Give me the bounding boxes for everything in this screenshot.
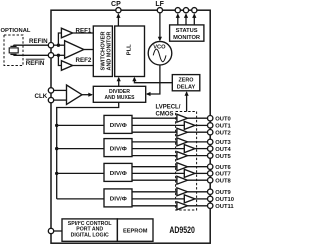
driver OUT8 — [177, 176, 188, 184]
buffer REFIN differential — [65, 41, 84, 59]
pin OUT0 — [208, 116, 231, 123]
svg-text:DIGITAL LOGIC: DIGITAL LOGIC — [71, 232, 109, 238]
output drivers dashed box — [176, 112, 197, 211]
svg-text:DIV/Φ: DIV/Φ — [110, 197, 127, 203]
wire DIV to driver 8 — [132, 179, 177, 181]
svg-text:OUT6: OUT6 — [215, 165, 231, 171]
svg-text:REFIN: REFIN — [26, 60, 45, 67]
wire DIV to driver 5 — [132, 155, 177, 157]
block PLL — [115, 26, 145, 77]
driver OUT0 — [177, 114, 188, 122]
wire VCO to divider — [147, 65, 160, 94]
wire driver to OUT4 — [195, 148, 208, 150]
pin STATUS1 — [183, 8, 188, 13]
wire DIV to driver 11 — [132, 205, 177, 207]
wire driver to OUT1 — [195, 124, 208, 126]
wire driver to OUT3 — [188, 141, 208, 143]
wire crystal to REFIN — [14, 44, 49, 46]
wire CLK buffer to divider — [82, 94, 92, 96]
pin OUT10 — [208, 196, 234, 203]
svg-text:ZERO: ZERO — [179, 78, 195, 84]
svg-text:STATUS: STATUS — [176, 28, 198, 34]
svg-text:CLK: CLK — [35, 93, 48, 100]
svg-text:REF2: REF2 — [76, 57, 92, 64]
pin STATUS0 — [175, 8, 180, 13]
pin OUT7 — [208, 171, 231, 178]
wire DIV to driver 9 — [132, 191, 177, 193]
wire DIV to driver 6 — [132, 166, 177, 168]
label LVPECL/CMOS — [156, 105, 181, 118]
svg-text:DIVIDER: DIVIDER — [109, 89, 130, 95]
svg-text:CMOS: CMOS — [156, 111, 174, 117]
svg-text:MONITOR: MONITOR — [173, 35, 200, 41]
buffer REF2 — [61, 57, 91, 70]
wire CLKB to buffer — [54, 99, 67, 101]
wire REFIN branch to REF1 — [58, 33, 61, 45]
buffer REF1 — [61, 28, 91, 38]
svg-text:CP: CP — [111, 1, 121, 8]
block EEPROM — [117, 219, 153, 241]
wire driver to OUT11 — [188, 205, 208, 207]
svg-text:OUT11: OUT11 — [215, 204, 234, 210]
wire divider bus to channel dividers — [57, 102, 119, 199]
divider DIV/PHASE 3 — [104, 163, 132, 181]
pin LF — [155, 1, 164, 13]
wire DIV to driver 2 — [132, 131, 177, 133]
wire diff buffer to switchover — [84, 49, 94, 51]
wire outputs to zero delay — [186, 92, 188, 111]
svg-text:AND MONITOR: AND MONITOR — [106, 31, 112, 70]
pin REFIN — [29, 38, 54, 48]
svg-text:REFIN: REFIN — [29, 38, 48, 45]
pin STATUS2 — [192, 8, 197, 13]
wire CLK to buffer — [54, 89, 67, 91]
divider DIV/PHASE 1 — [104, 115, 132, 133]
svg-text:OUT5: OUT5 — [215, 154, 231, 160]
pin SPI/I2C — [48, 228, 53, 233]
svg-text:OUT10: OUT10 — [215, 197, 234, 203]
pin OUT9 — [208, 189, 232, 196]
svg-text:LVPECL/: LVPECL/ — [156, 105, 181, 111]
node bus tap group 1 — [55, 124, 58, 127]
wire driver to OUT9 — [188, 191, 208, 193]
driver OUT7 — [184, 169, 195, 177]
wire REFINB branch to REF2 — [58, 55, 61, 65]
driver OUT6 — [177, 163, 188, 171]
pin REFINB (REFIN-bar) — [26, 53, 54, 68]
node REFIN branch — [57, 44, 60, 47]
wire SPI pin to control port — [54, 230, 62, 232]
svg-text:OUT9: OUT9 — [215, 190, 231, 196]
chip outline AD9520 — [51, 10, 210, 243]
block SWITCHOVER AND MONITOR — [93, 26, 112, 77]
svg-text:OUT0: OUT0 — [215, 116, 230, 122]
pin OUT1 — [208, 123, 232, 130]
svg-text:AND MUXES: AND MUXES — [105, 95, 135, 101]
svg-text:DELAY: DELAY — [177, 84, 196, 90]
svg-text:OUT2: OUT2 — [215, 130, 230, 136]
wire status monitor to pin — [193, 15, 195, 25]
pin CLKB — [48, 97, 53, 102]
wire REF1 to switchover — [73, 32, 94, 34]
svg-text:PLL: PLL — [126, 44, 132, 55]
pin OUT6 — [208, 164, 232, 171]
wire DIV to driver 4 — [132, 148, 184, 150]
wire bus to DIV3 — [57, 172, 104, 174]
wire divider to PLL feedback — [118, 78, 120, 86]
wire DIV to driver 7 — [132, 172, 184, 174]
driver OUT3 — [177, 138, 188, 146]
wire LF to VCO — [159, 13, 161, 40]
wire driver to OUT7 — [195, 172, 208, 174]
driver OUT1 — [184, 121, 195, 129]
svg-text:EEPROM: EEPROM — [123, 228, 148, 234]
svg-text:DIV/Φ: DIV/Φ — [110, 146, 127, 152]
pin OUT5 — [208, 153, 232, 160]
wire crystal to REFINB — [14, 54, 49, 56]
driver OUT9 — [177, 188, 188, 196]
wire PLL to CP — [117, 15, 119, 27]
wire zero delay to PLL — [134, 78, 172, 83]
wire REF2 to switchover — [73, 65, 94, 67]
block SPI/I2C CONTROL PORT AND DIGITAL LOGIC — [62, 219, 117, 241]
wire DIV to driver 1 — [132, 124, 184, 126]
node bus tap group 2 — [55, 147, 58, 150]
wire driver to OUT5 — [188, 155, 208, 157]
pin OUT11 — [208, 203, 235, 210]
wire driver to OUT10 — [195, 198, 208, 200]
svg-text:OUT3: OUT3 — [215, 140, 231, 146]
svg-text:OUT1: OUT1 — [215, 124, 231, 130]
svg-text:LF: LF — [155, 1, 164, 8]
svg-text:DIV/Φ: DIV/Φ — [110, 171, 127, 177]
wire driver to OUT0 — [188, 117, 208, 119]
node bus tap group 3 — [55, 172, 58, 175]
svg-text:OUT8: OUT8 — [215, 178, 231, 184]
pin OUT2 — [208, 130, 231, 137]
pin CLK — [35, 88, 54, 100]
svg-text:OUT4: OUT4 — [215, 147, 231, 153]
block STATUS MONITOR — [170, 25, 204, 41]
divider DIV/PHASE 4 — [104, 189, 132, 207]
wire bus to DIV1 — [57, 124, 104, 126]
svg-text:OPTIONAL: OPTIONAL — [1, 28, 31, 34]
pin CP — [111, 1, 121, 13]
crystal Y1 — [9, 45, 18, 55]
wire bus to DIV2 — [57, 148, 104, 150]
divider DIV/PHASE 2 — [104, 139, 132, 157]
wire REFINB to buffers — [54, 54, 65, 56]
wire driver to OUT6 — [188, 166, 208, 168]
oscillator VCO — [148, 41, 172, 65]
svg-text:DIV/Φ: DIV/Φ — [110, 123, 127, 129]
wire status monitor to pin — [177, 15, 179, 25]
buffer CLK — [67, 85, 83, 104]
svg-text:OUT7: OUT7 — [215, 172, 230, 178]
node REFINB branch — [57, 54, 60, 57]
pin OUT3 — [208, 139, 232, 146]
driver OUT4 — [184, 145, 195, 153]
pin OUT8 — [208, 178, 232, 185]
wire DIV to driver 3 — [132, 141, 177, 143]
block ZERO DELAY — [172, 75, 200, 91]
wire driver to OUT8 — [188, 179, 208, 181]
driver OUT10 — [184, 195, 195, 203]
optional crystal dashed box — [4, 35, 23, 66]
wire driver to OUT2 — [188, 131, 208, 133]
wire status monitor to pin — [185, 15, 187, 25]
pin OUT4 — [208, 146, 232, 153]
driver OUT5 — [177, 152, 188, 160]
driver OUT2 — [177, 128, 188, 136]
wire DIV to driver 0 — [132, 117, 177, 119]
wire REFIN to buffers — [54, 44, 65, 46]
wire DIV to driver 10 — [132, 198, 184, 200]
svg-text:AD9520: AD9520 — [169, 225, 195, 235]
block DIVIDER AND MUXES — [93, 86, 145, 102]
driver OUT11 — [177, 202, 188, 210]
wire bus to DIV4 — [57, 198, 104, 200]
